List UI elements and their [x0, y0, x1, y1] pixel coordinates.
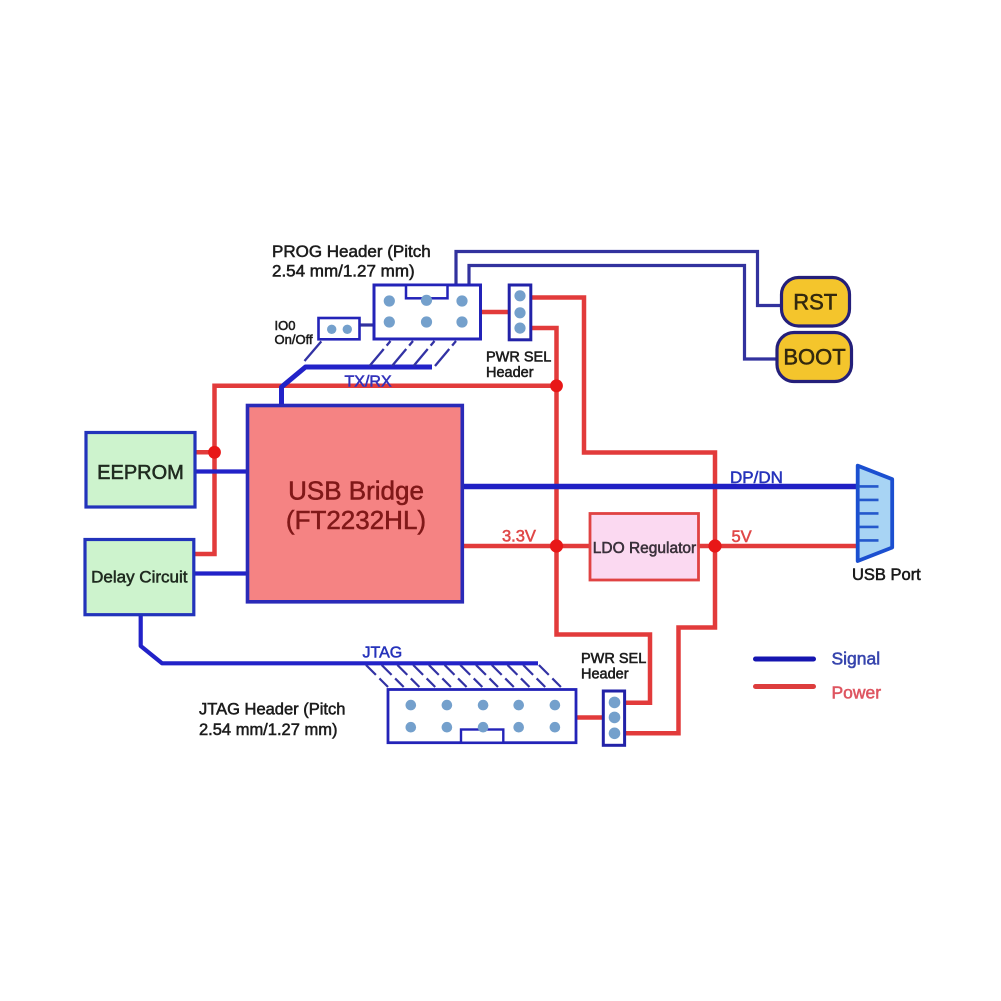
- hatch ribbon marks above JTAG header: [366, 665, 561, 687]
- wire TX/RX bus (USB bridge to PROG header area): [282, 367, 433, 407]
- svg-text:Header: Header: [581, 667, 629, 683]
- wire DP/DN (USB bridge to USB port): [462, 484, 857, 490]
- wire IO0 switch to PROG header: [359, 323, 374, 326]
- svg-text:USB Port: USB Port: [852, 566, 921, 584]
- legend Signal: [756, 657, 814, 662]
- junction node at 3.3V rail: [550, 539, 563, 552]
- svg-text:EEPROM: EEPROM: [97, 462, 184, 484]
- svg-text:PWR SEL: PWR SEL: [486, 350, 551, 366]
- connector JTAG header: [388, 690, 576, 743]
- wire power EEPROM stub: [195, 450, 215, 455]
- svg-text:Header: Header: [486, 365, 534, 381]
- svg-text:TX/RX: TX/RX: [345, 374, 392, 391]
- svg-text:On/Off: On/Off: [275, 332, 313, 347]
- svg-text:PWR SEL: PWR SEL: [581, 651, 646, 667]
- hatch ribbon marks under PROG header: [370, 341, 457, 366]
- hatch mark under IO0 switch: [305, 341, 322, 361]
- connector PWR SEL header (top): [509, 285, 531, 340]
- junction node at EEPROM power tap: [208, 446, 221, 459]
- block Delay Circuit: [85, 540, 194, 615]
- svg-text:Delay Circuit: Delay Circuit: [91, 568, 188, 587]
- wire power 3.3V (USB bridge to LDO): [462, 544, 590, 549]
- svg-text:JTAG Header (Pitch: JTAG Header (Pitch: [199, 701, 345, 719]
- svg-text:2.54 mm/1.27 mm): 2.54 mm/1.27 mm): [199, 721, 337, 739]
- button RST: [782, 278, 850, 327]
- connector PROG header: [374, 285, 481, 339]
- wire power PWR SEL top pin3 down to bottom PWR SEL pin1: [531, 328, 650, 703]
- svg-text:DP/DN: DP/DN: [730, 468, 783, 487]
- block EEPROM: [86, 433, 195, 508]
- wire power 5V junction down to bottom PWR SEL pin3: [625, 546, 715, 733]
- svg-text:IO0: IO0: [275, 318, 296, 333]
- junction node at 5V rail: [708, 539, 721, 552]
- wire EEPROM to USB bridge: [195, 469, 248, 473]
- junction node at TX/RX rail and PWR SEL drop: [550, 379, 563, 392]
- wire power Delay Circuit up to TX/RX-level rail: [194, 386, 557, 554]
- svg-text:Power: Power: [832, 683, 882, 703]
- button BOOT: [777, 333, 852, 382]
- block LDO Regulator: [590, 514, 699, 581]
- svg-text:RST: RST: [793, 290, 837, 315]
- wire power 5V (LDO to USB port): [699, 544, 858, 549]
- wire Delay Circuit to USB bridge: [194, 571, 248, 575]
- legend Power: [756, 684, 814, 689]
- svg-text:5V: 5V: [732, 528, 752, 546]
- svg-text:3.3V: 3.3V: [502, 528, 536, 546]
- connector PWR SEL header (bottom): [603, 691, 624, 745]
- svg-text:JTAG: JTAG: [363, 645, 403, 662]
- wire JTAG bus (Delay Circuit to JTAG header area): [141, 614, 538, 663]
- wire RST signal (PROG header to RST button): [456, 252, 782, 306]
- wire power PWR SEL top pin1 to 5V junction: [531, 298, 715, 547]
- wire power JTAG header to bottom PWR SEL: [576, 715, 603, 720]
- connector USB Port: [858, 466, 893, 561]
- wire BOOT signal (PROG header to BOOT button): [469, 266, 777, 360]
- svg-text:LDO Regulator: LDO Regulator: [593, 540, 696, 557]
- block USB Bridge U1: [248, 406, 463, 602]
- wire power PROG header to PWR SEL top: [481, 310, 510, 315]
- svg-text:BOOT: BOOT: [783, 345, 845, 370]
- svg-text:USB Bridge: USB Bridge: [288, 476, 424, 506]
- svg-text:(FT2232HL): (FT2232HL): [286, 505, 426, 535]
- svg-text:2.54 mm/1.27 mm): 2.54 mm/1.27 mm): [272, 262, 415, 281]
- svg-text:PROG Header (Pitch: PROG Header (Pitch: [272, 242, 431, 261]
- switch IO0 On/Off: [319, 318, 360, 339]
- svg-text:Signal: Signal: [832, 649, 881, 669]
